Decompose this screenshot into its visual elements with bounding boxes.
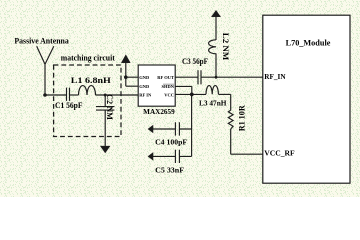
- svg-text:SHDN: SHDN: [161, 84, 174, 89]
- svg-text:MAX2659: MAX2659: [143, 108, 175, 116]
- svg-text:RF OUT: RF OUT: [157, 75, 174, 80]
- svg-text:RF_IN: RF_IN: [264, 73, 285, 81]
- svg-text:matching circuit: matching circuit: [61, 54, 115, 63]
- svg-text:Passive Antenna: Passive Antenna: [14, 36, 68, 45]
- svg-text:C4 100pF: C4 100pF: [155, 137, 187, 146]
- svg-text:L70_Module: L70_Module: [286, 38, 331, 47]
- svg-text:GND: GND: [139, 75, 150, 80]
- svg-text:C5 33nF: C5 33nF: [155, 165, 184, 174]
- svg-text:L3 47nH: L3 47nH: [199, 100, 227, 108]
- svg-text:RF IN: RF IN: [139, 92, 152, 97]
- svg-text:GND: GND: [139, 84, 150, 89]
- svg-text:C3 56pF: C3 56pF: [182, 57, 208, 66]
- svg-text:R1 10R: R1 10R: [237, 105, 246, 131]
- svg-text:VCC: VCC: [164, 92, 174, 97]
- svg-text:C2 NM: C2 NM: [105, 94, 114, 120]
- svg-text:L2 NM: L2 NM: [221, 33, 230, 61]
- svg-text:C1 56pF: C1 56pF: [55, 101, 83, 110]
- svg-text:VCC_RF: VCC_RF: [264, 149, 294, 157]
- svg-text:L1 6.8nH: L1 6.8nH: [71, 76, 112, 85]
